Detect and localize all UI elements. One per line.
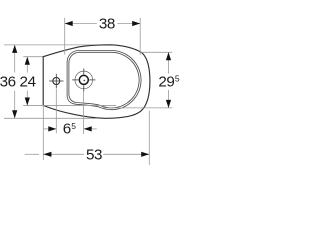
dim 53 line: [25, 153, 39, 155]
rim outer line: [67, 50, 141, 109]
extension line 24 bottom (crosses fixture): [23, 104, 116, 106]
svg-text:38: 38: [99, 16, 115, 33]
extension line 24 top: [23, 56, 44, 58]
svg-text:53: 53: [86, 146, 102, 163]
svg-text:5: 5: [71, 121, 76, 131]
extension line top (36 top, tangent to bowl): [4, 44, 108, 46]
drain circles: [75, 71, 93, 89]
extension line 29.5 bottom: [103, 107, 172, 109]
dim 24 line: [26, 57, 28, 73]
tap hole circle: [53, 78, 60, 85]
extension line 29.5 top: [141, 51, 172, 53]
dim 38 line: [65, 23, 97, 25]
ceramic body outline: [43, 45, 150, 118]
rear face extension down: [42, 105, 44, 160]
svg-text:6: 6: [63, 121, 71, 138]
dim 36 line: [14, 45, 16, 73]
extension line 36 bottom: [4, 117, 95, 119]
dim 29.5 line: [168, 52, 170, 73]
svg-text:5: 5: [175, 74, 180, 84]
svg-text:36: 36: [0, 74, 16, 91]
38 right extension: [139, 18, 141, 55]
dim 6.5: [43, 128, 56, 130]
38 left extension: [64, 18, 66, 55]
svg-text:29: 29: [158, 74, 174, 91]
drain extension down: [83, 91, 85, 134]
rim inner line: [69, 52, 139, 108]
tap hole extension down: [55, 89, 57, 134]
svg-text:24: 24: [20, 74, 36, 91]
53 right extension: [148, 111, 150, 166]
